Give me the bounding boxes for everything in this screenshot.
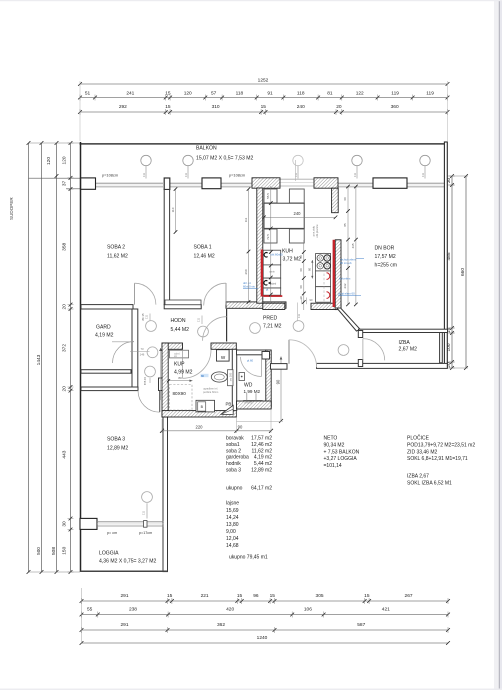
svg-text:12,89 M2: 12,89 M2 <box>107 446 128 452</box>
wall WD south hatched <box>237 401 272 409</box>
area table rooms <box>226 436 272 492</box>
outer wall right <box>444 142 447 368</box>
svg-text:12,46 m2: 12,46 m2 <box>251 442 272 448</box>
svg-text:37: 37 <box>61 180 67 186</box>
svg-text:14,24: 14,24 <box>226 515 239 521</box>
ceiling light SOBA3 <box>142 492 153 503</box>
dim line SOBA1 west <box>171 187 178 234</box>
svg-text:291: 291 <box>120 593 128 599</box>
svg-text:57: 57 <box>211 91 217 97</box>
left dim line outer 1443 <box>27 141 31 574</box>
door nook swing arc <box>203 317 227 341</box>
svg-text:4,36 M2 X 0,75= 3,27 M2: 4,36 M2 X 0,75= 3,27 M2 <box>99 559 157 565</box>
window glazing 338-373 <box>338 183 373 187</box>
dim line hall small <box>130 347 150 357</box>
door GARD leaf <box>112 341 134 343</box>
svg-text:292: 292 <box>119 104 127 110</box>
nook partition stub <box>226 309 228 342</box>
wall bottom east long <box>317 363 448 368</box>
svg-text:232: 232 <box>343 283 347 288</box>
loggia window sill box <box>80 518 97 529</box>
wardrobe box SOBA1 south wall <box>165 300 201 305</box>
washing machine W box <box>217 350 230 361</box>
svg-text:238: 238 <box>129 607 137 613</box>
svg-text:obl.60x60: obl.60x60 <box>271 253 284 257</box>
svg-text:SUDOPER: SUDOPER <box>9 197 14 220</box>
svg-text:2,67 M2: 2,67 M2 <box>399 347 418 353</box>
left dim ext top <box>29 142 81 144</box>
svg-text:POD13,79+9,72 M2=23,51 m2: POD13,79+9,72 M2=23,51 m2 <box>407 443 475 449</box>
SOBA3 light stem <box>142 503 148 518</box>
kitchen handle red east 1 <box>327 273 330 280</box>
svg-text:90: 90 <box>310 298 313 302</box>
dim 220-90 below bathroom <box>160 409 273 433</box>
svg-text:80: 80 <box>178 376 182 380</box>
svg-text:91: 91 <box>267 91 273 97</box>
svg-text:60: 60 <box>299 255 303 259</box>
wall KUH west hatched <box>257 188 263 303</box>
hatched wall piece balcony right of door <box>314 178 338 188</box>
svg-text:p= cm: p= cm <box>107 531 117 535</box>
wall IZBA west pier bottom <box>358 360 362 367</box>
top dim chain row B <box>78 104 449 115</box>
wall KUH south west hatched <box>263 303 285 309</box>
kitchen counter east unit mid <box>316 271 331 287</box>
door SOBA2 swing arc <box>135 283 156 304</box>
entrance door swing arc <box>289 340 317 368</box>
window glazing 95-163 <box>95 183 163 187</box>
svg-text:118: 118 <box>236 91 244 97</box>
svg-text:587: 587 <box>357 622 365 628</box>
door SOBA1 leaf <box>225 283 227 305</box>
loggia bottom railing <box>80 570 168 572</box>
left dim line 2 <box>36 141 43 574</box>
blue note dnbor 3 <box>338 292 361 296</box>
svg-text:ukupno: ukupno <box>226 486 243 492</box>
svg-text:111: 111 <box>421 172 425 177</box>
svg-text:111: 111 <box>244 217 248 222</box>
svg-text:146: 146 <box>140 353 145 357</box>
light stem HODN W up <box>145 314 150 321</box>
wall KUP north hatched east part <box>211 343 236 349</box>
svg-text:p=108cm: p=108cm <box>229 172 245 177</box>
balcony top railing <box>80 143 448 145</box>
window glazing 221-252 <box>221 183 252 187</box>
hob burner 4 <box>324 263 330 269</box>
left dim ext window bottom <box>66 188 96 190</box>
svg-text:60: 60 <box>343 197 347 201</box>
svg-text:ukupno 79,45 m1: ukupno 79,45 m1 <box>229 555 268 561</box>
svg-text:90: 90 <box>275 379 280 384</box>
svg-text:SOBA 2: SOBA 2 <box>107 245 125 251</box>
svg-text:+ 7,53 BALKON: + 7,53 BALKON <box>324 449 360 455</box>
svg-text:30: 30 <box>61 521 67 527</box>
bottom dim extension left <box>81 588 83 644</box>
wall KUP west hatched <box>162 343 168 417</box>
svg-text:HODN: HODN <box>171 318 186 324</box>
dim line SOBA1 <box>244 187 251 304</box>
kitchen counter red edge east <box>333 240 335 307</box>
svg-text:305: 305 <box>316 593 324 599</box>
svg-text:9,00: 9,00 <box>226 529 236 535</box>
kitchen counter west red edge <box>261 250 263 297</box>
svg-text:h=255 cm: h=255 cm <box>375 263 398 269</box>
svg-text:508: 508 <box>51 547 57 555</box>
svg-text:111: 111 <box>297 313 301 318</box>
outer wall left <box>80 142 82 572</box>
blue note soba1 lower <box>243 281 258 289</box>
wall WD north <box>237 350 267 355</box>
dim line hall vertical <box>159 348 162 400</box>
wall KUP north hatched west part <box>162 343 183 349</box>
svg-text:14,68: 14,68 <box>226 543 239 549</box>
svg-text:4,19 M2: 4,19 M2 <box>95 333 114 339</box>
svg-text:12,89 m2: 12,89 m2 <box>251 468 272 474</box>
svg-text:LOGGIA: LOGGIA <box>99 551 119 557</box>
ceiling light hall M <box>147 347 158 358</box>
dining chair NE <box>289 189 304 203</box>
page edge right <box>494 0 502 690</box>
svg-text:1240: 1240 <box>257 635 268 641</box>
svg-text:60: 60 <box>299 285 303 289</box>
wall niche top <box>81 370 131 374</box>
svg-text:310: 310 <box>212 104 220 110</box>
svg-text:lajsne: lajsne <box>226 501 239 507</box>
light stem hall S down <box>149 378 151 383</box>
svg-text:220: 220 <box>196 425 204 430</box>
kitchen handle red east 2 <box>327 292 330 299</box>
svg-text:20: 20 <box>336 104 342 110</box>
svg-text:875 15: 875 15 <box>143 376 147 384</box>
svg-text:435: 435 <box>351 243 355 248</box>
vanity console KUP <box>228 370 234 386</box>
svg-text:15: 15 <box>237 593 243 599</box>
svg-text:zrc 160: zrc 160 <box>229 372 233 381</box>
wall SOBA2 bottom west <box>81 305 133 309</box>
svg-text:4,99 M2: 4,99 M2 <box>174 370 193 376</box>
dining table <box>264 203 304 228</box>
svg-text:119: 119 <box>426 91 434 97</box>
svg-text:5,44 M2: 5,44 M2 <box>171 327 190 333</box>
wall GARD east <box>132 309 138 387</box>
svg-text:85: 85 <box>343 223 347 227</box>
hatched wall piece balcony left of door <box>252 178 280 188</box>
svg-text:ogled: ogled <box>174 353 180 355</box>
kitchen handle C lower <box>264 281 267 285</box>
balcony light stem mid <box>295 160 297 181</box>
console WD <box>243 393 262 404</box>
svg-text:96: 96 <box>253 593 259 599</box>
svg-text:15: 15 <box>167 593 173 599</box>
svg-text:122: 122 <box>356 91 364 97</box>
shower dashed area <box>170 385 193 411</box>
lajsne list <box>226 501 268 561</box>
svg-text:55: 55 <box>87 607 93 613</box>
svg-text:7,21 M2: 7,21 M2 <box>263 324 282 330</box>
ceiling light HODN E <box>198 326 209 337</box>
svg-text:60: 60 <box>299 268 303 272</box>
PLOCICE block <box>407 435 475 487</box>
dining chair SE <box>289 229 304 243</box>
entrance door leaf <box>288 340 290 364</box>
svg-text:80X90: 80X90 <box>173 391 187 396</box>
svg-text:118: 118 <box>297 91 305 97</box>
left dim line 3 <box>46 141 58 574</box>
kitchen counter axis dashed <box>323 253 325 304</box>
wall stub above soba3 door <box>159 378 164 391</box>
wall SOBA2 bottom east <box>164 305 201 309</box>
wall IZBA west pier top <box>358 331 362 338</box>
door KUP swing arc <box>183 350 212 379</box>
svg-text:WD: WD <box>244 383 253 389</box>
blue note washbasin <box>201 374 209 378</box>
svg-text:p=17cm: p=17cm <box>139 531 152 535</box>
kitchen hob box <box>316 254 331 271</box>
svg-text:4,19 m2: 4,19 m2 <box>254 455 272 461</box>
svg-text:106: 106 <box>304 607 312 613</box>
svg-text:perilica 60cm: perilica 60cm <box>203 390 218 394</box>
svg-text:NETO: NETO <box>324 436 338 442</box>
door SOBA1 swing arc <box>204 283 226 305</box>
window sill box left corner <box>81 178 96 189</box>
svg-text:20: 20 <box>61 304 67 310</box>
window partition stub <box>164 178 170 190</box>
svg-text:240: 240 <box>294 211 302 216</box>
hatched wall L to dining <box>332 188 339 213</box>
svg-text:=101,14: =101,14 <box>324 463 342 469</box>
svg-text:241: 241 <box>126 91 134 97</box>
svg-text:IZBA 2,67: IZBA 2,67 <box>407 474 429 480</box>
svg-text:1252: 1252 <box>258 77 269 83</box>
wall KUH east hatched <box>335 240 341 310</box>
svg-text:SOKL 6,8+12,91 M1=19,71: SOKL 6,8+12,91 M1=19,71 <box>407 456 468 462</box>
svg-text:soba1: soba1 <box>226 442 240 448</box>
svg-text:111: 111 <box>145 314 149 319</box>
svg-text:17,57 m2: 17,57 m2 <box>251 436 272 442</box>
svg-text:421: 421 <box>382 607 390 613</box>
svg-text:stjed: stjed <box>271 281 277 285</box>
washbasin KUP <box>211 372 227 382</box>
door SOBA3 leaf <box>159 391 161 413</box>
svg-text:260: 260 <box>244 269 248 274</box>
svg-text:kuh.elem: kuh.elem <box>339 277 351 281</box>
svg-text:15: 15 <box>270 593 276 599</box>
svg-text:boravak: boravak <box>226 436 244 442</box>
svg-text:15,07 M2 X 0,5= 7,53 M2: 15,07 M2 X 0,5= 7,53 M2 <box>196 156 254 162</box>
door WD swing arc <box>240 357 261 377</box>
kitchen counter west units <box>263 250 281 295</box>
ceiling light HODN W <box>146 321 157 332</box>
svg-text:81: 81 <box>327 91 333 97</box>
svg-text:p=108cm: p=108cm <box>102 172 118 177</box>
svg-text:donji elem 60: donji elem 60 <box>338 292 355 296</box>
ceiling light hall S <box>145 366 156 377</box>
svg-text:55.5: 55.5 <box>266 193 270 199</box>
dim chairs labels <box>266 193 270 240</box>
window sill box middle <box>202 178 221 189</box>
balcony ceiling light L5 <box>420 155 430 178</box>
svg-text:15,69: 15,69 <box>226 508 239 514</box>
door SOBA2 leaf <box>134 283 136 304</box>
svg-text:360: 360 <box>391 104 399 110</box>
hob burner 3 <box>317 263 323 269</box>
svg-text:umiv: umiv <box>269 270 275 274</box>
window sill box right <box>373 178 407 188</box>
right dim line outer 660 <box>460 174 468 370</box>
svg-text:PRED: PRED <box>263 316 277 322</box>
diagonal wall PRED-IZBA <box>337 308 360 331</box>
wall niche bottom west <box>81 387 138 391</box>
dim 240 dining <box>262 211 337 219</box>
svg-text:1,99 M2: 1,99 M2 <box>244 389 261 394</box>
bottom overall dim 1240 <box>80 635 450 645</box>
svg-text:13,80: 13,80 <box>226 522 239 528</box>
top overall dim 1252 <box>78 77 449 86</box>
svg-text:291: 291 <box>120 622 128 628</box>
svg-text:PLOČICE: PLOČICE <box>407 435 430 442</box>
blue note dnbor 1 <box>340 258 364 266</box>
svg-text:358: 358 <box>61 242 67 250</box>
ceiling light PRED <box>293 321 304 332</box>
dining chair SW <box>264 229 277 243</box>
bottom dim chain row 2 <box>80 607 450 618</box>
svg-text:90,34 M2: 90,34 M2 <box>324 443 345 449</box>
svg-text:IZBA: IZBA <box>399 340 411 346</box>
svg-text:SOBA 3: SOBA 3 <box>107 437 125 443</box>
PRED light stem up <box>297 303 301 321</box>
dining chair NW <box>264 189 277 203</box>
light stem HODN E up <box>197 316 202 325</box>
svg-text:240: 240 <box>297 104 305 110</box>
balcony ceiling light L1 <box>141 155 151 178</box>
svg-text:hodnik: hodnik <box>226 461 241 467</box>
svg-text:15: 15 <box>261 104 267 110</box>
dim 90 vertical entry <box>237 357 284 424</box>
shaft pier box entry <box>262 352 270 360</box>
wall IZBA north <box>359 329 448 332</box>
svg-text:ZID 33,46 M2: ZID 33,46 M2 <box>407 449 438 455</box>
wall KUH south hatched <box>311 303 341 309</box>
page edge top <box>0 0 502 1</box>
svg-text:111: 111 <box>142 172 146 177</box>
kitchen counter east unit low <box>316 287 331 303</box>
svg-text:11,62 M2: 11,62 M2 <box>107 254 128 260</box>
wall IZBA east inner <box>440 333 443 363</box>
dim line DN BOR b <box>351 185 358 307</box>
svg-text:soba 2: soba 2 <box>226 448 241 454</box>
wall SOBA3 east <box>163 391 168 572</box>
ceiling light PRED W <box>250 323 261 334</box>
svg-text:PB: PB <box>226 402 232 407</box>
svg-text:10: 10 <box>299 296 303 300</box>
door WD leaf <box>261 357 263 377</box>
svg-text:GARD: GARD <box>96 325 111 331</box>
dim kitchen counter 60 <box>308 260 314 279</box>
svg-text:20: 20 <box>61 386 67 392</box>
svg-text:obl.plocice: obl.plocice <box>315 224 319 238</box>
svg-text:500: 500 <box>36 547 41 555</box>
svg-text:362: 362 <box>217 622 225 628</box>
svg-text:150: 150 <box>61 546 67 554</box>
balcony ceiling light L2 <box>183 155 193 178</box>
top dim extension right <box>447 81 449 141</box>
bottom dim chain row 1 <box>80 593 450 604</box>
svg-text:12,46 M2: 12,46 M2 <box>194 254 215 260</box>
svg-text:KUP: KUP <box>174 362 185 368</box>
bottom dim chain row 3 <box>80 622 450 633</box>
svg-text:pl.: pl. <box>266 288 269 292</box>
ceiling light corridor IZBA <box>338 345 349 356</box>
svg-text:443: 443 <box>61 450 67 458</box>
svg-text:120: 120 <box>61 156 67 164</box>
top dim extension left <box>79 81 81 141</box>
left dim ext bottom <box>29 571 81 573</box>
svg-text:11,62 m2: 11,62 m2 <box>252 448 273 454</box>
svg-text:60 cm ob: 60 cm ob <box>340 261 352 265</box>
svg-text:BALKON: BALKON <box>196 146 217 152</box>
cabinet B box <box>196 400 215 412</box>
kitchen counter west red bottom <box>263 295 282 297</box>
svg-text:72.5: 72.5 <box>266 234 270 240</box>
balcony door threshold <box>280 179 315 186</box>
svg-text:120: 120 <box>46 157 52 165</box>
svg-text:111: 111 <box>353 172 357 177</box>
NETO block <box>324 436 360 470</box>
svg-text:111: 111 <box>184 172 188 177</box>
svg-text:73: 73 <box>140 347 144 351</box>
right dim ext lines <box>448 176 469 368</box>
svg-text:umiv.90: umiv.90 <box>244 402 253 405</box>
svg-text:+3,27 LOGGIA: +3,27 LOGGIA <box>324 456 358 462</box>
page edge bottom <box>0 689 502 690</box>
balcony ceiling light L4 <box>352 155 362 178</box>
tiny note shower lines <box>203 387 218 394</box>
wc box WD <box>239 373 245 381</box>
left dim ext window top <box>29 177 96 179</box>
svg-text:80: 80 <box>201 374 205 378</box>
svg-text:15: 15 <box>364 593 370 599</box>
svg-text:15: 15 <box>165 104 171 110</box>
dim line DN BOR a <box>343 185 350 307</box>
svg-text:SOBA 1: SOBA 1 <box>194 245 212 251</box>
door GARD opening arc <box>113 342 135 364</box>
partition wall SOBA2-SOBA1 <box>164 190 169 305</box>
svg-text:15: 15 <box>165 91 171 97</box>
dim line kitchen middle <box>299 240 305 310</box>
svg-text:60: 60 <box>308 268 312 272</box>
svg-text:SOKL IZBA 6,52 M1: SOKL IZBA 6,52 M1 <box>407 480 452 486</box>
svg-text:17,57 M2: 17,57 M2 <box>375 254 396 260</box>
wall HODN north middle <box>226 302 286 308</box>
svg-text:garderoba: garderoba <box>226 455 249 461</box>
svg-text:267: 267 <box>405 593 413 599</box>
svg-text:110: 110 <box>171 207 175 212</box>
svg-text:420: 420 <box>226 607 234 613</box>
tiny dim labels KUH door <box>302 298 313 305</box>
loggia divider tick <box>144 521 148 528</box>
svg-text:pl.60: pl.60 <box>247 359 254 363</box>
svg-text:5,44 m2: 5,44 m2 <box>254 461 272 467</box>
door IZBA swing arc <box>363 339 385 361</box>
svg-text:60x60 vis: 60x60 vis <box>243 285 255 289</box>
svg-text:1443: 1443 <box>36 354 42 365</box>
svg-text:KUH: KUH <box>282 249 293 255</box>
svg-text:221: 221 <box>201 593 209 599</box>
loggia glazing <box>97 522 164 526</box>
svg-text:660: 660 <box>460 268 466 276</box>
svg-text:12,04: 12,04 <box>226 536 239 542</box>
hob burner 2 <box>324 255 330 261</box>
